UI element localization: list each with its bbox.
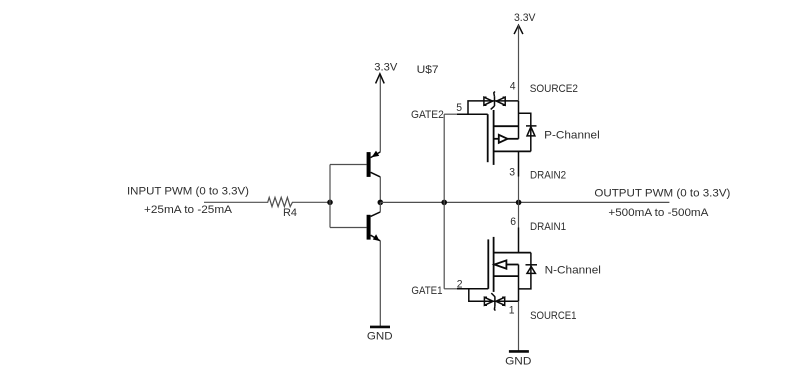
svg-text:5: 5 — [456, 102, 462, 114]
svg-text:1: 1 — [509, 305, 515, 317]
wire zener2 riser — [468, 101, 519, 115]
wire GATE2 — [444, 113, 458, 115]
wire base top to Q1 — [330, 164, 367, 166]
svg-text:+25mA to -25mA: +25mA to -25mA — [144, 204, 232, 216]
svg-text:INPUT PWM (0 to 3.3V): INPUT PWM (0 to 3.3V) — [127, 186, 249, 198]
ground right — [509, 350, 529, 353]
ground left — [370, 326, 390, 329]
wire drain1 pin — [518, 202, 520, 227]
svg-text:DRAIN2: DRAIN2 — [530, 170, 566, 182]
wire base bottom to Q2 — [330, 227, 367, 229]
zener D2 gate protection — [484, 92, 505, 110]
wire Q1 collector to output node — [379, 177, 381, 203]
diode body P loop — [519, 113, 537, 151]
svg-text:3.3V: 3.3V — [374, 62, 397, 74]
svg-text:+500mA to -500mA: +500mA to -500mA — [608, 207, 708, 219]
node output junction dot — [378, 200, 384, 206]
wire zener1 riser — [469, 288, 519, 301]
svg-text:SOURCE1: SOURCE1 — [530, 310, 576, 322]
wire 3.3V to source2 pin — [518, 25, 520, 101]
svg-text:2: 2 — [457, 278, 463, 290]
svg-text:3.3V: 3.3V — [514, 12, 536, 24]
mosfet P-channel U$7a — [488, 110, 531, 165]
wire input net — [204, 201, 266, 203]
resistor R4 — [266, 197, 294, 206]
supply 3.3V right arrow — [514, 25, 523, 34]
wire output net horizontal — [380, 201, 669, 203]
svg-text:GND: GND — [367, 331, 393, 343]
wire base vertical — [329, 165, 331, 228]
node base junction dot — [327, 200, 333, 206]
svg-text:4: 4 — [510, 81, 516, 93]
transistor Q1 PNP top — [367, 151, 381, 177]
svg-text:U$7: U$7 — [417, 64, 439, 76]
wire gate drive vertical — [443, 114, 445, 289]
node gate junction dot — [441, 200, 447, 206]
zener D1 gate protection — [484, 293, 504, 311]
supply 3.3V left arrow — [376, 74, 385, 84]
svg-text:P-Channel: P-Channel — [544, 130, 600, 142]
svg-text:6: 6 — [510, 216, 516, 228]
wire Q2 collector to output node — [379, 202, 381, 212]
svg-text:GND: GND — [505, 355, 531, 367]
wire resistor to base node — [294, 201, 330, 203]
svg-text:OUTPUT PWM (0 to 3.3V): OUTPUT PWM (0 to 3.3V) — [594, 187, 730, 199]
wire GATE1 — [444, 288, 458, 290]
svg-text:GATE1: GATE1 — [411, 285, 442, 297]
svg-text:R4: R4 — [283, 207, 297, 219]
wire source1 to GND — [518, 265, 520, 302]
svg-text:N-Channel: N-Channel — [545, 265, 601, 277]
svg-text:SOURCE2: SOURCE2 — [530, 83, 578, 95]
mosfet N-channel U$7b — [488, 237, 531, 292]
wire Q1 emitter to 3.3V — [379, 75, 381, 152]
wire drain2 pin — [518, 151, 520, 176]
transistor Q2 NPN bottom — [367, 212, 381, 241]
node drain junction dot — [516, 200, 522, 206]
svg-text:GATE2: GATE2 — [411, 109, 444, 121]
wire Q2 emitter to GND — [379, 241, 381, 327]
diode body N loop — [519, 253, 538, 289]
svg-text:3: 3 — [509, 167, 515, 179]
svg-text:DRAIN1: DRAIN1 — [530, 221, 566, 233]
